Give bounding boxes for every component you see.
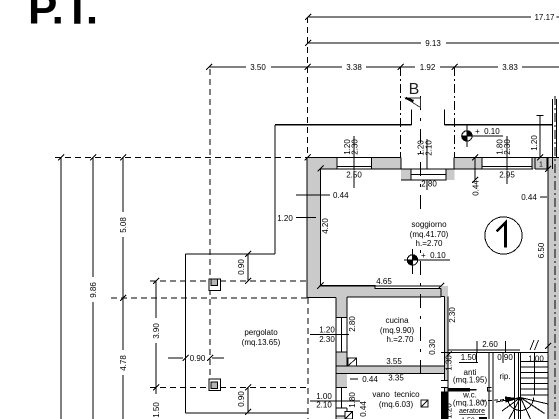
extension x454.5 — [454, 67, 456, 158]
svg-text:rip.: rip. — [499, 372, 510, 381]
pergola top edge — [186, 253, 276, 255]
svg-text:1.20: 1.20 — [277, 214, 293, 223]
window W1 frame — [337, 158, 372, 170]
right wall axis dash-dot — [554, 96, 556, 419]
window dim lines vertical — [354, 116, 544, 191]
top dimension line 9.13 — [305, 40, 559, 46]
spiral stair — [496, 398, 548, 419]
svg-text:2.60: 2.60 — [482, 340, 498, 349]
svg-text:2.80: 2.80 — [421, 180, 437, 189]
west wall outer face — [306, 158, 308, 298]
svg-text:pergolato: pergolato — [244, 328, 278, 337]
svg-text:1.30: 1.30 — [445, 355, 454, 371]
svg-text:0.44: 0.44 — [333, 191, 349, 200]
top wall segment C — [454, 158, 482, 170]
extension x400.5 — [400, 67, 402, 158]
svg-text:h.=2.70: h.=2.70 — [416, 239, 443, 248]
pergola post bottom — [209, 379, 221, 391]
svg-text:0.44: 0.44 — [521, 193, 537, 202]
svg-text:1.00: 1.00 — [528, 355, 544, 364]
entrance dim x427 — [426, 139, 428, 190]
top wall outer face — [307, 157, 559, 159]
svg-text:0.44: 0.44 — [359, 401, 368, 417]
svg-text:(mq.9.90): (mq.9.90) — [380, 326, 415, 335]
svg-text:1.92: 1.92 — [420, 63, 436, 72]
cucina east wall — [441, 286, 448, 297]
W2 dim x507 — [506, 136, 508, 184]
svg-text:P.T.: P.T. — [28, 0, 98, 34]
svg-text:0.44: 0.44 — [362, 375, 378, 384]
top wall segment B — [371, 158, 401, 170]
svg-text:1.50: 1.50 — [461, 353, 477, 362]
vano west door dim — [310, 400, 360, 402]
rip right wall / stair stringer — [515, 353, 519, 419]
extension x307.5 top — [307, 17, 309, 158]
cucina west inner face — [346, 297, 348, 366]
circle 1 — [485, 217, 522, 254]
svg-text:(mq.13.65): (mq.13.65) — [242, 338, 281, 347]
west wall soggiorno — [307, 158, 321, 296]
svg-text:2.10: 2.10 — [425, 140, 434, 156]
svg-text:3.55: 3.55 — [386, 357, 402, 366]
anti west wall door gap — [442, 381, 448, 388]
entrance door sill — [411, 169, 446, 180]
anti/rip partition — [489, 353, 493, 419]
cucina west wall lower — [336, 352, 347, 388]
cucina south wall — [336, 366, 448, 374]
entrance recess outline — [401, 158, 454, 181]
left vertical dimension lines — [58, 155, 311, 419]
spiral arrow — [482, 397, 519, 403]
svg-text:4.65: 4.65 — [376, 277, 392, 286]
svg-text:3.50: 3.50 — [250, 63, 266, 72]
svg-text:vano tecnico: vano tecnico — [372, 390, 420, 399]
svg-text:1.50: 1.50 — [152, 402, 161, 418]
soggiorno south inner face — [321, 286, 442, 289]
svg-text:0.90: 0.90 — [237, 259, 246, 275]
partition walls anti/rip/wc — [441, 353, 548, 419]
cucina door symbol — [348, 358, 357, 366]
cucina south inner face — [336, 365, 445, 367]
0.44 dims — [296, 155, 547, 380]
pergola post top — [209, 279, 221, 291]
dashed extension top-left horizontal — [55, 157, 307, 159]
building outlines — [307, 158, 559, 419]
dashed horizontal y281 — [150, 280, 310, 282]
svg-text:+ 0.10: + 0.10 — [475, 127, 500, 136]
svg-text:9.13: 9.13 — [425, 39, 441, 48]
svg-text:2.30: 2.30 — [351, 139, 360, 155]
section line B — [420, 96, 422, 378]
svg-text:0.90: 0.90 — [190, 354, 206, 363]
svg-text:1.20: 1.20 — [530, 135, 539, 151]
svg-text:1.80: 1.80 — [348, 392, 357, 408]
dashed horizontal y387.5 — [150, 387, 310, 389]
anti west inner face — [447, 353, 449, 419]
svg-text:1.20: 1.20 — [319, 326, 335, 335]
top dimension chain 3.50 3.38 1.92 3.83 — [206, 64, 559, 70]
svg-text:4.78: 4.78 — [119, 355, 128, 371]
anti/wc partition black bar — [448, 388, 470, 392]
top wall segment E — [535, 158, 559, 170]
notch exterior line — [307, 298, 336, 419]
pergola dashed right edge x308 — [307, 298, 309, 419]
svg-text:9.86: 9.86 — [89, 282, 98, 298]
right wall inner face — [547, 158, 549, 419]
W1 dim x354 — [353, 136, 355, 188]
cucina north inner face — [347, 296, 441, 298]
4.65 dim — [317, 283, 444, 289]
recess block right — [446, 169, 455, 180]
svg-text:2.30: 2.30 — [319, 335, 335, 344]
svg-text:3.83: 3.83 — [502, 63, 518, 72]
svg-text:4.20: 4.20 — [321, 218, 330, 234]
vano west door frame — [336, 388, 347, 417]
svg-text:(mq.41.70): (mq.41.70) — [410, 230, 449, 239]
label backgrounds — [88, 132, 546, 419]
svg-text:2.10: 2.10 — [316, 401, 332, 410]
wc west wall black fill — [441, 392, 448, 419]
right wall — [548, 158, 559, 419]
svg-text:cucina: cucina — [385, 316, 409, 325]
svg-text:5.08: 5.08 — [119, 217, 128, 233]
svg-text:17.17: 17.17 — [534, 13, 555, 22]
top wall segment A — [307, 158, 337, 170]
pergola dims 0.90 — [168, 251, 251, 415]
right 1.20 dim x538.5 — [537, 116, 544, 161]
survey marker soggiorno — [404, 249, 450, 274]
svg-text:2.80: 2.80 — [348, 316, 357, 332]
survey marker top — [461, 125, 503, 147]
svg-text:0.44: 0.44 — [472, 180, 481, 196]
top wall segment D — [532, 158, 536, 170]
top dimension line 17.17 — [305, 14, 559, 20]
svg-text:2.95: 2.95 — [499, 171, 515, 180]
box 1 at wall end — [535, 158, 547, 170]
svg-text:(mq.6.03): (mq.6.03) — [379, 400, 414, 409]
wall fills — [307, 158, 559, 419]
vano west wall bottom — [336, 416, 347, 419]
cucina window dim — [310, 334, 349, 336]
junction band (soggiorno south wall) — [307, 286, 448, 298]
svg-text:B: B — [409, 81, 420, 98]
svg-text:3.35: 3.35 — [388, 374, 404, 383]
boundary wall top right — [553, 99, 557, 169]
pergola outline — [186, 109, 553, 413]
hall south wall — [441, 352, 548, 354]
cucina east faces — [441, 289, 448, 419]
svg-text:2.30: 2.30 — [448, 307, 457, 323]
section marker B — [406, 81, 421, 108]
vano door symbol — [421, 400, 428, 407]
svg-text:2.30: 2.30 — [503, 139, 512, 155]
canopy edge right — [445, 109, 553, 124]
svg-text:3.38: 3.38 — [346, 63, 362, 72]
svg-text:h.=2.70: h.=2.70 — [387, 335, 414, 344]
svg-text:(mq.1.95): (mq.1.95) — [453, 376, 488, 385]
window W2 frame — [482, 158, 532, 170]
recess block left — [401, 169, 411, 180]
svg-text:+ 0.10: + 0.10 — [421, 251, 446, 260]
svg-text:0.90: 0.90 — [497, 353, 513, 362]
top wall inner face — [321, 168, 534, 170]
west wall inner face — [320, 169, 322, 286]
vano north face — [336, 373, 445, 375]
dashed horizontal y298 — [111, 297, 308, 299]
cucina window frame — [336, 318, 347, 353]
svg-text:soggiorno: soggiorno — [411, 220, 447, 229]
svg-text:6.50: 6.50 — [537, 242, 546, 258]
svg-text:3.90: 3.90 — [152, 323, 161, 339]
interior vertical dims — [318, 166, 552, 350]
pergola bottom edge — [186, 412, 308, 414]
svg-text:0.30: 0.30 — [428, 339, 437, 355]
stairs straight flight — [521, 353, 549, 419]
pergola dashed left edge / extension x210 — [209, 69, 211, 388]
hall dims 2.60 / 1.50 / 0.90 / 1.00 — [447, 341, 521, 363]
svg-text:(mq.1.80): (mq.1.80) — [453, 399, 488, 408]
svg-text:1: 1 — [539, 162, 543, 169]
stair break mark — [530, 340, 539, 350]
canopy edge left — [275, 109, 412, 124]
svg-text:0.90: 0.90 — [237, 391, 246, 407]
svg-text:aeratore: aeratore — [459, 408, 485, 415]
cucina west wall upper — [336, 295, 347, 318]
pergola left edge — [185, 254, 187, 413]
vano SW door symbol — [345, 412, 353, 419]
canopy riser — [274, 125, 276, 254]
window sill labels — [345, 171, 363, 179]
soggiorno labels — [394, 212, 464, 249]
svg-text:2.50: 2.50 — [346, 171, 362, 180]
